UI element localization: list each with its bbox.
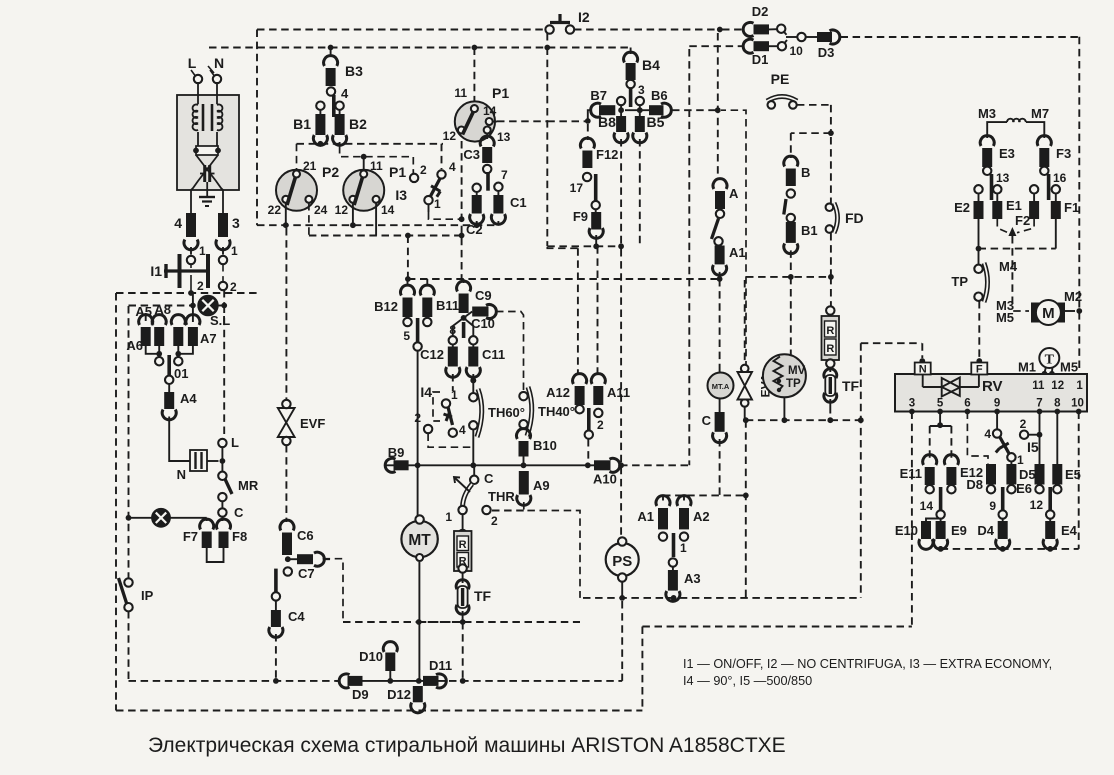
svg-text:14: 14 — [381, 203, 395, 217]
pin 8 male — [449, 322, 463, 338]
terminal under C6 — [284, 567, 292, 575]
wire THR-2 link — [492, 510, 524, 512]
connector E3 — [980, 136, 1015, 167]
wire pin5 bracket — [930, 412, 952, 460]
terminal C2 top — [473, 184, 481, 192]
connector C4 — [269, 592, 305, 637]
filter Y-capacitors — [191, 155, 223, 190]
junction — [415, 462, 421, 468]
node L — [218, 435, 239, 450]
svg-text:M1: M1 — [1018, 360, 1036, 375]
wire pin7 col — [1037, 412, 1043, 465]
svg-text:E4: E4 — [1061, 523, 1078, 538]
wire PE right to FD col — [797, 105, 831, 133]
svg-text:THR: THR — [488, 489, 515, 504]
svg-text:T: T — [1045, 353, 1055, 368]
wire pin6 elbow — [967, 412, 988, 465]
connector C1 — [491, 191, 526, 224]
wire PE left leg — [721, 110, 746, 368]
svg-text:C12: C12 — [420, 347, 444, 362]
wire row 279 — [405, 236, 720, 282]
svg-text:C2: C2 — [466, 222, 483, 237]
svg-text:A: A — [729, 186, 739, 201]
switch B-B1 — [784, 199, 786, 215]
door relay N — [177, 450, 219, 482]
pin 3 — [909, 398, 915, 415]
connector D12 — [387, 686, 425, 713]
svg-text:C7: C7 — [298, 566, 315, 581]
connector E1 — [992, 194, 1022, 220]
svg-text:7: 7 — [501, 168, 508, 182]
svg-text:A2: A2 — [693, 509, 710, 524]
main bus B9-A10 — [385, 464, 600, 466]
wire F1 down — [1055, 219, 1057, 249]
wire A6 stub — [145, 313, 147, 321]
wire top row A dashed — [257, 29, 546, 31]
wire to B — [791, 133, 831, 158]
wire F7-F8 bracket — [207, 548, 224, 562]
svg-text:P2: P2 — [322, 164, 339, 180]
junction — [618, 107, 624, 113]
terminal B3 — [327, 86, 349, 101]
svg-text:1: 1 — [1017, 453, 1024, 467]
svg-text:10: 10 — [790, 44, 804, 58]
svg-text:A5: A5 — [135, 304, 152, 319]
svg-text:2: 2 — [597, 418, 604, 432]
svg-text:A8: A8 — [154, 302, 171, 317]
switch I4 — [414, 384, 471, 447]
wire A12 feed — [547, 247, 578, 375]
motor fan MV/TP — [763, 277, 806, 397]
connector B1 — [293, 110, 327, 145]
thermostat TH40 — [519, 387, 575, 436]
svg-text:1: 1 — [434, 197, 441, 211]
svg-text:I4 — 90°, I5 —500/850: I4 — 90°, I5 —500/850 — [683, 674, 812, 688]
svg-text:1: 1 — [199, 244, 206, 258]
svg-text:B1: B1 — [293, 116, 311, 132]
wire E1-F2 join — [997, 219, 1034, 236]
svg-text:1: 1 — [231, 244, 238, 258]
thermal fuse TF (MT) — [456, 573, 491, 623]
wire row y246 — [547, 235, 621, 249]
filter capacitor CX (box) — [193, 132, 221, 155]
connector C3 — [463, 134, 494, 163]
svg-text:I5: I5 — [1027, 439, 1039, 455]
wire S.L row — [129, 305, 225, 307]
connector C7 — [288, 552, 330, 581]
pin 2 male (A11) — [585, 408, 604, 468]
wire A1 to row279 — [717, 272, 723, 282]
svg-text:A11: A11 — [607, 385, 630, 400]
wire A6-A5 join — [146, 346, 162, 357]
wire MV to row420 — [782, 397, 788, 423]
svg-text:L: L — [188, 55, 197, 71]
connector E12 — [944, 455, 983, 494]
terminal A — [716, 210, 724, 218]
wire F col left edge — [546, 48, 548, 247]
svg-text:C6: C6 — [297, 528, 314, 543]
terminal B8 top — [617, 97, 625, 105]
wire B8 col down — [618, 139, 624, 249]
wire pin5 to bus — [417, 351, 419, 466]
wire pin1 to I1 — [191, 264, 223, 281]
terminal F3 — [1040, 167, 1048, 175]
svg-text:MV: MV — [788, 365, 806, 377]
svg-text:R: R — [826, 343, 834, 355]
legend text — [683, 657, 1052, 688]
wire C2 to row1 — [476, 221, 478, 225]
connector A10 — [593, 458, 620, 486]
connector F3 — [1037, 136, 1071, 167]
wire E2 down — [976, 219, 982, 252]
connector 3 — [216, 213, 240, 250]
terminal E2 top — [974, 185, 982, 193]
connector A1 — [713, 245, 746, 275]
connector B8 — [598, 105, 628, 143]
thermostat TH60 — [469, 378, 525, 438]
motor MT.A — [708, 371, 734, 399]
svg-text:M5: M5 — [996, 310, 1014, 325]
svg-text:C1: C1 — [510, 195, 527, 210]
filter inductor L2 — [212, 82, 222, 131]
wire B5 col down — [639, 139, 641, 246]
wire MT down — [416, 562, 422, 681]
svg-text:F1: F1 — [1064, 200, 1079, 215]
connector F9 — [573, 209, 603, 238]
wire P1-14 stem — [375, 203, 377, 236]
connector B9 — [385, 445, 408, 472]
connector B5 — [633, 105, 665, 143]
pin 9 male — [989, 487, 1007, 519]
wire P1-12 stem — [350, 203, 356, 228]
svg-text:P1: P1 — [389, 164, 406, 180]
connector A — [713, 179, 739, 209]
wire EVA to row420 — [743, 407, 749, 598]
connector E10 — [895, 519, 941, 550]
terminal F box — [971, 363, 987, 376]
connector A1 (drain) — [637, 496, 670, 541]
svg-text:F2: F2 — [1015, 213, 1030, 228]
wire C connector (MT.A) — [702, 399, 720, 429]
wire row 248.6 — [979, 248, 1056, 250]
pin 16 male — [1049, 171, 1067, 200]
svg-text:B12: B12 — [374, 299, 398, 314]
signal lamp S.L — [199, 296, 231, 328]
svg-text:B6: B6 — [651, 88, 668, 103]
pin 13 male — [992, 171, 1010, 200]
connector B — [784, 156, 811, 186]
svg-text:C4: C4 — [288, 609, 305, 624]
wire TP to F box — [976, 301, 982, 364]
connector A3 — [666, 558, 701, 601]
connector C12 — [420, 345, 460, 378]
connector A6 — [126, 315, 152, 353]
junction — [637, 107, 643, 113]
connector A9 — [517, 471, 550, 505]
wire B1 down — [790, 250, 792, 277]
terminal E3 — [983, 167, 991, 175]
wire E1F2 to motor — [1011, 236, 1013, 309]
wire pin9 to I5 — [996, 412, 998, 430]
svg-text:M4: M4 — [999, 259, 1018, 274]
caption — [148, 734, 786, 757]
svg-text:5: 5 — [403, 329, 410, 343]
connector E11 — [900, 455, 937, 494]
svg-text:B8: B8 — [598, 114, 616, 130]
wire row 549 — [938, 546, 1079, 552]
svg-text:C: C — [234, 505, 244, 520]
wire C col down — [719, 439, 721, 495]
pin 8 — [1054, 398, 1061, 415]
connector F7 — [183, 519, 214, 548]
connector D9 — [336, 674, 383, 702]
junction — [461, 315, 467, 321]
wire C7 corner — [323, 559, 343, 622]
junction — [585, 118, 591, 124]
junction — [788, 274, 794, 280]
wire C1 to row1 — [497, 221, 499, 225]
svg-text:13: 13 — [996, 171, 1010, 185]
connector D2 — [743, 4, 777, 36]
svg-text:N: N — [919, 364, 927, 376]
connector A7 — [186, 315, 217, 346]
svg-text:9: 9 — [994, 398, 1000, 410]
terminal F9 top — [592, 201, 600, 209]
wire staircase — [642, 627, 912, 711]
svg-text:D9: D9 — [352, 687, 369, 702]
svg-text:A9: A9 — [533, 478, 550, 493]
terminal F1 top — [1052, 185, 1060, 193]
svg-text:F: F — [976, 364, 983, 376]
connector A12 — [546, 374, 586, 414]
connector E5 — [1052, 464, 1081, 493]
wire C9 split — [453, 318, 474, 336]
wire A col to MTA — [719, 279, 721, 371]
switch I2 — [545, 9, 589, 34]
wire FD down — [828, 233, 834, 280]
svg-text:I1 — ON/OFF, I2 — NO CENTRIFUG: I1 — ON/OFF, I2 — NO CENTRIFUGA, I3 — EX… — [683, 657, 1052, 671]
svg-text:11: 11 — [1032, 380, 1045, 392]
svg-text:E9: E9 — [951, 523, 967, 538]
connector C10 — [464, 305, 497, 332]
pin 1 (right) — [219, 244, 238, 264]
svg-text:1: 1 — [451, 388, 458, 402]
wire I2 to rowB — [546, 33, 548, 48]
svg-text:TP: TP — [951, 274, 968, 289]
connector C11 — [466, 345, 505, 378]
node L terminal — [188, 55, 202, 83]
connector E9 — [934, 519, 967, 550]
svg-text:TF: TF — [842, 378, 860, 394]
wire P2-24 stem — [308, 203, 310, 236]
wire left column x257 — [256, 30, 258, 226]
wire filter to connector 4 — [190, 190, 192, 213]
junction — [828, 130, 834, 136]
junction — [126, 515, 132, 521]
wire F7 stem — [206, 518, 208, 521]
wire I3-1 elbow — [429, 204, 462, 219]
svg-text:22: 22 — [268, 203, 282, 217]
valve EVA — [738, 280, 773, 407]
pin 5 — [937, 398, 944, 415]
connector E2 — [954, 194, 983, 220]
dial P2 — [268, 144, 340, 217]
wire row y156.7 — [340, 146, 414, 173]
svg-text:M5: M5 — [1060, 360, 1078, 375]
svg-text:I3: I3 — [395, 187, 407, 203]
wire C10 to TH40 — [496, 312, 524, 391]
svg-text:17: 17 — [570, 181, 584, 195]
contact FD — [826, 137, 864, 233]
connector D5 — [1006, 462, 1035, 494]
svg-text:D8: D8 — [966, 477, 983, 492]
svg-text:I4: I4 — [420, 384, 432, 400]
wire right col down — [1078, 300, 1080, 371]
svg-text:N: N — [214, 55, 224, 71]
svg-text:A10: A10 — [593, 472, 617, 487]
svg-text:A7: A7 — [200, 331, 217, 346]
svg-text:I1: I1 — [150, 263, 162, 279]
svg-text:4: 4 — [459, 423, 466, 437]
pin 11 label — [1032, 380, 1045, 392]
svg-text:2: 2 — [230, 280, 237, 294]
connector A4 — [162, 384, 197, 420]
terminal B — [787, 189, 795, 197]
junction — [387, 678, 393, 684]
svg-text:5: 5 — [937, 398, 944, 410]
connector D10 — [359, 642, 397, 681]
module RV — [895, 374, 1087, 412]
svg-text:E1: E1 — [1006, 198, 1022, 213]
lamp (drum light) — [129, 509, 207, 526]
wire A8-A7 join — [175, 346, 192, 357]
svg-text:B4: B4 — [642, 57, 660, 73]
node N terminal — [210, 55, 224, 83]
pin 3 male — [629, 88, 633, 107]
svg-text:8: 8 — [1054, 398, 1061, 410]
svg-text:24: 24 — [314, 203, 328, 217]
wire TH60 to bus — [472, 429, 474, 465]
svg-text:B11: B11 — [436, 298, 459, 313]
connector C — [713, 412, 727, 443]
svg-text:E10: E10 — [895, 523, 918, 538]
svg-text:E3: E3 — [999, 146, 1015, 161]
wire bottom outer dashed — [116, 710, 642, 712]
svg-text:8: 8 — [449, 323, 456, 337]
svg-text:B7: B7 — [590, 88, 607, 103]
connector F2 — [1015, 194, 1039, 229]
wire TF to bus — [460, 619, 466, 681]
wire A10 to PS col — [618, 462, 689, 468]
pin 5 male — [403, 318, 421, 351]
svg-text:MR: MR — [238, 478, 259, 493]
svg-text:B5: B5 — [647, 114, 665, 130]
connector B10 — [517, 429, 557, 466]
contact TP — [951, 249, 1017, 313]
junction — [521, 462, 527, 468]
wire I3-4 drop — [441, 144, 443, 169]
wire B12 stem — [407, 279, 409, 287]
node C — [218, 501, 244, 520]
pin 1 label — [1076, 380, 1083, 392]
pin 9 — [994, 398, 1000, 415]
svg-text:12: 12 — [1051, 380, 1064, 392]
wire F9 to A11 — [597, 246, 599, 375]
terminal C3 — [483, 165, 491, 173]
motor M — [996, 289, 1082, 325]
terminal under A5 — [155, 357, 163, 365]
svg-text:A1: A1 — [637, 509, 654, 524]
pin 12 male — [1030, 487, 1055, 519]
wire inner dashed left column — [128, 306, 130, 681]
connector C2 — [466, 192, 484, 237]
junction — [544, 45, 550, 51]
svg-text:IP: IP — [141, 588, 154, 603]
wire A7 stem — [192, 306, 194, 323]
svg-text:1: 1 — [1076, 380, 1083, 392]
svg-text:1: 1 — [445, 510, 452, 524]
svg-text:D10: D10 — [359, 649, 383, 664]
pin 4 male — [332, 95, 336, 117]
svg-text:A12: A12 — [546, 385, 570, 400]
svg-text:D11: D11 — [429, 658, 452, 673]
wire row 420 — [746, 419, 861, 421]
junction — [460, 678, 466, 684]
svg-text:D5: D5 — [1019, 467, 1036, 482]
svg-text:FD: FD — [845, 210, 864, 226]
thermostat THR — [445, 477, 515, 528]
junction — [285, 556, 291, 562]
wire converge D3 — [784, 32, 798, 44]
svg-text:B: B — [801, 165, 810, 180]
terminal under A8 — [174, 357, 182, 365]
wire dashed row 622 — [343, 621, 580, 623]
thermal fuse TF (MV) — [824, 368, 860, 407]
tacho T — [1018, 348, 1078, 377]
pin 17 male — [594, 174, 598, 201]
svg-text:EVF: EVF — [300, 416, 325, 431]
svg-text:B10: B10 — [533, 438, 557, 453]
terminal B2 top — [335, 102, 343, 110]
wire C4 to bus — [275, 634, 277, 681]
terminal 7 — [494, 168, 508, 191]
wire A9 elbow — [524, 502, 580, 598]
svg-text:B1: B1 — [801, 223, 818, 238]
connector A8 — [154, 302, 185, 346]
wire pin2R to L — [223, 290, 225, 438]
svg-text:R: R — [459, 539, 467, 551]
wire I1-2 down to S.L row — [192, 293, 194, 306]
svg-text:A4: A4 — [180, 391, 197, 406]
pin 12 label — [1051, 380, 1064, 392]
junction — [717, 27, 723, 33]
svg-text:4: 4 — [174, 215, 182, 231]
node C (THR) — [470, 471, 494, 486]
terminal B1 top — [316, 102, 324, 110]
svg-text:E2: E2 — [954, 200, 970, 215]
svg-text:3: 3 — [638, 83, 645, 97]
connector B1 — [784, 214, 818, 254]
svg-text:F9: F9 — [573, 209, 588, 224]
svg-text:2: 2 — [414, 411, 421, 425]
wire P2-22 stem — [283, 203, 289, 228]
terminal C11 top — [469, 336, 477, 344]
svg-text:C10: C10 — [471, 316, 495, 331]
contact PE — [767, 71, 797, 109]
svg-text:TH40°: TH40° — [538, 404, 575, 419]
wire B11 stem — [426, 279, 428, 287]
terminal D1 right — [778, 42, 803, 58]
